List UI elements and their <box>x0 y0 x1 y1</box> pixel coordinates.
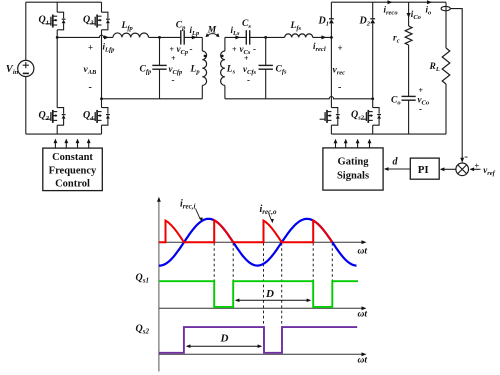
waveform axis 3 (Qs2) <box>159 352 367 356</box>
svg-text:Ls: Ls <box>226 65 236 76</box>
svg-text:rc: rc <box>393 34 400 45</box>
svg-text:Co: Co <box>391 96 401 107</box>
wire: bridge top rail <box>26 1 102 3</box>
svg-text:+: + <box>244 54 249 63</box>
dashed timing lines <box>214 243 332 353</box>
svg-text:-: - <box>419 104 422 114</box>
capacitor Co <box>402 96 416 134</box>
current arrow io <box>427 0 432 4</box>
wire: Lfp to Cp <box>149 36 181 38</box>
diode D1 <box>329 19 334 24</box>
label irec,i with leader <box>180 199 203 222</box>
transformer dot primary <box>204 55 207 58</box>
svg-text:iLp: iLp <box>190 25 200 37</box>
svg-text:Q4: Q4 <box>83 110 94 122</box>
svg-text:Cp: Cp <box>176 21 186 32</box>
voltage source Vin <box>18 2 34 134</box>
svg-text:vCp: vCp <box>177 44 189 56</box>
waveform irec,o (red chopped) <box>159 220 332 242</box>
load resistor branch <box>445 2 447 48</box>
transistor Q2 <box>45 108 65 126</box>
svg-text:ωt: ωt <box>358 247 368 257</box>
label irec,o with leader <box>260 204 277 223</box>
current arrow ireco <box>388 0 393 4</box>
wire: rect left leg <box>330 2 332 19</box>
wire: summer to PI <box>441 168 456 170</box>
transformer secondary Ls <box>221 37 225 98</box>
wire: node A to Lfp (hop over right leg) <box>57 35 113 37</box>
current arrow iCo <box>407 13 411 18</box>
node rectifier return <box>371 97 374 100</box>
wire vref arrow <box>471 168 481 170</box>
block Gating Signals <box>323 148 383 190</box>
wire: primary bottom rail <box>102 98 203 100</box>
current arrow irecl <box>321 35 326 39</box>
arrow into summer <box>460 158 464 163</box>
inductor Lfs <box>285 34 313 37</box>
svg-text:Lfp: Lfp <box>121 21 134 32</box>
svg-text:D1: D1 <box>318 16 329 28</box>
svg-text:vref: vref <box>483 165 495 177</box>
current arrow iLfp <box>104 35 109 39</box>
diode D2 <box>370 19 375 24</box>
current arrow iLp <box>192 35 197 39</box>
branch rc/Co <box>408 2 410 26</box>
node Cfp junction <box>158 36 161 39</box>
current arrow iLs <box>235 35 240 39</box>
svg-text:d: d <box>393 157 399 168</box>
svg-text:Gating: Gating <box>338 157 370 168</box>
svg-text:+: + <box>170 45 175 54</box>
capacitor Cs <box>246 30 249 44</box>
transistor Q3 <box>90 12 110 30</box>
transistor Q1 <box>45 12 65 30</box>
wire: Cs to Lfs <box>250 36 285 38</box>
svg-text:-: - <box>338 82 341 93</box>
wire: rectifier top rail <box>331 1 446 3</box>
svg-text:-: - <box>190 44 193 54</box>
svg-text:+: + <box>171 54 176 63</box>
svg-text:+: + <box>232 45 237 54</box>
svg-text:-: - <box>172 75 175 85</box>
node Cfs junction <box>264 36 267 39</box>
svg-text:Cfs: Cfs <box>276 65 288 76</box>
summing junction <box>456 163 469 176</box>
wire: left leg upper <box>56 2 58 12</box>
svg-text:Q1: Q1 <box>39 14 49 26</box>
gating arrows <box>334 139 372 148</box>
svg-text:Frequency: Frequency <box>49 166 97 177</box>
svg-text:-: - <box>247 75 250 85</box>
resistor rc <box>405 26 412 45</box>
svg-text:Lfs: Lfs <box>290 21 302 32</box>
waveform axis 1 (current plot) <box>159 240 367 244</box>
wire: Lfs to rectifier <box>313 36 332 38</box>
node B <box>100 97 103 100</box>
svg-text:RL: RL <box>429 62 440 73</box>
waveform vertical axis <box>157 197 161 372</box>
wire: Ls to Cs <box>225 36 246 38</box>
svg-text:-: - <box>89 82 92 93</box>
wire: left leg middle <box>56 30 58 108</box>
mutual coupling M <box>206 33 220 37</box>
duty annotation D2 <box>186 344 262 348</box>
svg-text:+: + <box>88 43 93 53</box>
wire: right leg middle <box>101 30 103 108</box>
svg-text:D: D <box>265 288 274 300</box>
wire: PI to gating <box>385 168 410 170</box>
svg-text:iLfp: iLfp <box>103 42 116 54</box>
svg-text:-: - <box>253 44 256 54</box>
transformer primary Lp <box>202 37 206 98</box>
wire: right leg upper <box>101 2 103 12</box>
waveform irec,i (blue sine) <box>159 219 357 266</box>
svg-text:+: + <box>338 43 343 53</box>
capacitor Cp <box>181 30 184 44</box>
sense ellipse <box>441 6 450 10</box>
svg-text:Control: Control <box>55 179 90 190</box>
svg-text:iLs: iLs <box>231 25 240 37</box>
wire: Cp to Lp <box>184 36 202 38</box>
inductor Lfp <box>113 33 149 37</box>
wire: right leg lower <box>101 125 103 134</box>
block PI <box>410 158 439 179</box>
wire: feedback <box>450 9 462 162</box>
svg-text:Q2: Q2 <box>39 110 50 122</box>
svg-text:vrec: vrec <box>333 66 346 77</box>
transistor Q4 <box>90 108 110 126</box>
svg-text:ireco: ireco <box>384 5 399 17</box>
svg-text:Qs2: Qs2 <box>136 324 150 336</box>
resistor RL <box>442 48 450 84</box>
transistor Qs1 <box>320 108 340 126</box>
waveform Qs1 gate (green) <box>159 281 358 307</box>
svg-text:ωt: ωt <box>358 310 368 320</box>
svg-text:Signals: Signals <box>337 171 369 182</box>
svg-text:Cs: Cs <box>242 19 251 30</box>
svg-text:Qs2: Qs2 <box>351 110 365 122</box>
svg-text:D2: D2 <box>359 16 371 28</box>
wire: secondary bottom rail (hop over rect leg) <box>225 97 373 99</box>
cfc arrows <box>54 139 91 148</box>
svg-text:Vin: Vin <box>6 64 19 76</box>
wire: bridge bottom rail <box>26 133 102 135</box>
duty annotation D1 <box>235 299 311 303</box>
transformer dot secondary <box>221 55 224 58</box>
wire: left leg lower <box>56 125 58 134</box>
svg-text:ωt: ωt <box>358 356 368 366</box>
svg-text:Q3: Q3 <box>83 14 94 26</box>
svg-text:Qs1: Qs1 <box>136 273 149 285</box>
svg-text:irecl: irecl <box>313 41 326 53</box>
svg-text:D: D <box>220 333 229 345</box>
capacitor Cfp <box>152 37 166 98</box>
svg-text:irec,o: irec,o <box>260 204 277 216</box>
svg-text:iCo: iCo <box>411 9 422 21</box>
svg-text:irec,i: irec,i <box>180 199 195 211</box>
capacitor Cfs <box>259 37 273 98</box>
transistor Qs2 <box>361 108 381 126</box>
svg-text:Lp: Lp <box>190 65 201 76</box>
block Constant Frequency Control <box>43 148 103 191</box>
svg-text:vAB: vAB <box>84 65 98 76</box>
svg-text:-: - <box>464 151 468 163</box>
svg-text:Cfp: Cfp <box>140 65 153 76</box>
svg-text:PI: PI <box>418 164 429 176</box>
waveform Qs2 gate (purple) <box>159 327 357 353</box>
waveform axis 2 (Qs1) <box>159 306 367 310</box>
wire: rect right leg <box>372 2 374 19</box>
svg-text:M: M <box>207 26 217 36</box>
wire: rectifier bottom rail <box>331 133 446 135</box>
svg-text:io: io <box>426 5 433 17</box>
node rectifier input <box>330 36 333 39</box>
node A <box>56 36 59 39</box>
svg-text:Constant: Constant <box>52 152 93 163</box>
